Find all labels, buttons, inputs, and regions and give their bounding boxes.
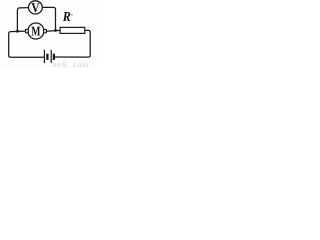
svg-text:en5. com: en5. com <box>53 62 89 68</box>
battery BT1 short thick plate 1 (negative) <box>46 54 48 60</box>
resistor R box <box>60 27 85 33</box>
battery BT1 long plate 1 (positive) <box>43 50 45 63</box>
wire: voltmeter left lead from V circle to left vertical drop <box>17 8 29 31</box>
svg-text:V: V <box>31 0 40 15</box>
wire: resistor right lead, right vertical drop and bottom run to battery <box>55 30 90 57</box>
voltmeter V1 circle <box>29 1 43 14</box>
wire: motor right terminal to junction node <box>46 30 55 33</box>
motor M1 left brush terminal <box>26 30 29 33</box>
node A: junction dot left (V lead joins motor left wire) <box>16 30 19 33</box>
wire: voltmeter right lead from V circle, corner down to resistor node <box>42 7 55 29</box>
svg-text:R: R <box>62 9 71 24</box>
stray ink speck near R <box>71 14 73 16</box>
motor M1 circle <box>28 23 44 39</box>
battery BT1 long plate 2 (positive) <box>50 50 52 63</box>
node B: junction dot right (V lead joins resistor lead) <box>54 29 57 32</box>
svg-text:M: M <box>31 24 40 39</box>
wire: resistor left lead from junction node <box>56 30 61 32</box>
battery BT1 short thick plate 2 (negative) <box>53 54 55 60</box>
motor M1 right brush terminal <box>44 30 47 33</box>
wire: left loop, motor left terminal to bottom-left corner and bottom run to battery <box>9 31 44 57</box>
